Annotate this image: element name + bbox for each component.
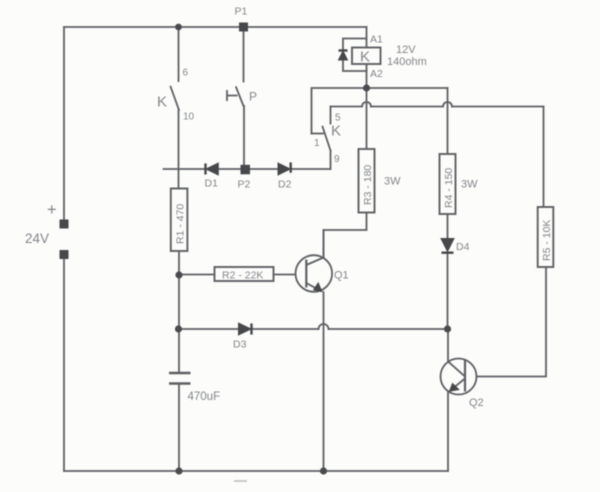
node bottom rail Q1 emitter junction — [320, 467, 327, 474]
wire K switch pin6 lead — [178, 27, 180, 81]
switch K blade — [171, 87, 180, 111]
resistor R5 — [538, 207, 554, 267]
svg-text:Q1: Q1 — [334, 270, 349, 282]
wire Q2 base to R5 — [476, 267, 546, 377]
node junction top rail / K branch — [175, 24, 182, 31]
wire R4 top lead — [447, 88, 449, 154]
wire P button upper lead — [243, 27, 245, 82]
wire R1 to cap vertical — [178, 251, 180, 372]
svg-text:3W: 3W — [384, 176, 401, 188]
node D3 row right junction — [444, 325, 451, 332]
node bottom rail cap junction — [175, 467, 182, 474]
svg-text:D3: D3 — [233, 339, 247, 351]
capacitor C1 plates — [169, 373, 191, 384]
svg-text:Q2: Q2 — [469, 397, 484, 409]
terminal P2 — [241, 165, 251, 175]
node relay A2 junction — [363, 84, 370, 91]
svg-text:R3 - 180: R3 - 180 — [362, 165, 374, 205]
flyback diode of relay — [339, 51, 348, 61]
wire D3 row right of hop — [329, 328, 448, 330]
svg-text:P: P — [249, 90, 257, 104]
wire bottom rail — [64, 470, 448, 472]
svg-text:R4 - 150: R4 - 150 — [443, 168, 455, 208]
diode D3 — [239, 323, 252, 335]
wire flyback diode bracket top — [343, 39, 367, 51]
svg-text:K: K — [360, 49, 370, 66]
wire R4 to D4 — [447, 214, 449, 238]
wire contact K pin5 stub — [330, 107, 332, 124]
svg-text:10: 10 — [183, 112, 195, 123]
wire hop over Q1 emitter — [319, 324, 329, 329]
node D3 row left junction — [175, 325, 182, 332]
wire flyback diode bracket bottom — [343, 60, 367, 71]
terminal P1 — [239, 23, 248, 32]
wire P button lower lead to P2 — [243, 106, 245, 166]
wire R2 node lead — [179, 274, 215, 276]
diode D4 — [441, 239, 454, 253]
svg-text:9: 9 — [334, 154, 340, 165]
wire left rail bottom — [63, 259, 65, 471]
wire Q1 emitter drop with hop crossing — [323, 292, 325, 471]
svg-text:D1: D1 — [205, 178, 219, 190]
wire net row to R5 with hops — [331, 106, 544, 108]
svg-text:R2 - 22K: R2 - 22K — [222, 270, 263, 282]
svg-text:D2: D2 — [278, 179, 292, 191]
svg-text:A2: A2 — [370, 68, 383, 80]
svg-text:1: 1 — [314, 138, 320, 149]
wire K switch lower lead to R1 — [178, 110, 180, 189]
svg-text:140ohm: 140ohm — [387, 56, 427, 68]
wire D4 to node row — [447, 253, 449, 329]
wire R3 top lead — [366, 88, 368, 149]
svg-text:3W: 3W — [461, 179, 478, 191]
resistor R2 — [215, 267, 274, 282]
node R1 bottom junction — [175, 271, 182, 278]
svg-text:K: K — [331, 123, 341, 140]
wire relay A1 lead — [366, 27, 368, 48]
relay coil K box — [352, 48, 381, 65]
svg-text:12V: 12V — [396, 44, 416, 56]
wire cap bottom lead — [178, 385, 180, 472]
wire contact K pin9 riser — [330, 151, 332, 170]
battery plus terminal — [60, 220, 69, 229]
svg-text:P1: P1 — [235, 6, 248, 18]
transistor Q2 — [441, 359, 477, 395]
wire hop over R3 branch — [362, 102, 371, 107]
svg-text:P2: P2 — [238, 179, 251, 191]
wire left rail top — [63, 27, 65, 220]
svg-text:A1: A1 — [370, 34, 383, 46]
diode D2 — [278, 162, 291, 175]
wire D3 row left of hop — [179, 328, 319, 330]
svg-text:R1 - 470: R1 - 470 — [175, 204, 187, 244]
pushbutton P blade — [236, 87, 244, 106]
wire Q1 collector riser — [323, 230, 325, 258]
pushbutton P actuator — [227, 90, 238, 101]
wire Q2 collector lead — [447, 329, 449, 362]
svg-text:D4: D4 — [456, 241, 470, 253]
stray scan mark bottom — [234, 480, 247, 482]
wire contact K pivot stub — [312, 133, 324, 135]
svg-text:24V: 24V — [25, 231, 49, 246]
diode D1 — [206, 163, 219, 175]
svg-text:470uF: 470uF — [188, 391, 221, 403]
wire diode row D1 P2 D2 — [164, 168, 331, 170]
contact K blade — [323, 127, 331, 151]
wire hop over R4 branch — [443, 102, 452, 107]
wire relay A2 lead — [366, 64, 368, 88]
wire R5 top lead — [543, 107, 545, 208]
battery minus terminal — [60, 250, 69, 259]
svg-text:+: + — [47, 201, 57, 219]
wire top rail — [64, 26, 367, 28]
resistor R1 — [171, 189, 188, 252]
wire Q2 emitter lead — [447, 392, 449, 471]
wire contact K pivot branch — [312, 88, 448, 134]
wire R2 to Q1 base — [274, 274, 296, 276]
svg-text:K: K — [157, 94, 167, 111]
resistor R4 — [440, 154, 456, 214]
svg-text:R5 - 10K: R5 - 10K — [541, 220, 553, 261]
resistor R3 — [359, 149, 375, 213]
wire R3 bottom to Q1 collector — [324, 213, 367, 258]
svg-text:6: 6 — [183, 68, 189, 79]
transistor Q1 — [296, 255, 333, 292]
